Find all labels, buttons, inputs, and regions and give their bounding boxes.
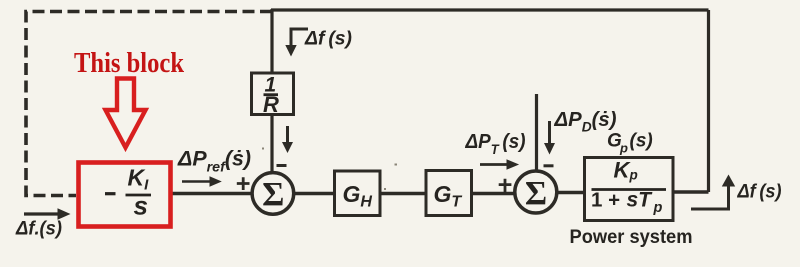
svg-text:(s): (s) (630, 131, 653, 152)
svg-text:sT: sT (627, 189, 654, 212)
svg-text:1 +: 1 + (591, 189, 620, 212)
svg-text:Δf.(s): Δf.(s) (15, 219, 62, 240)
svg-text:Σ: Σ (262, 176, 284, 213)
svg-text:Δf (s): Δf (s) (737, 182, 782, 203)
svg-text:p: p (653, 200, 663, 216)
svg-text:This block: This block (74, 47, 185, 79)
svg-text:p: p (619, 141, 628, 156)
svg-text:p: p (629, 168, 638, 183)
svg-text:Σ: Σ (525, 175, 547, 212)
svg-text:Δf (s): Δf (s) (304, 28, 352, 50)
svg-text:s: s (134, 191, 148, 221)
svg-text:Power system: Power system (570, 226, 693, 248)
